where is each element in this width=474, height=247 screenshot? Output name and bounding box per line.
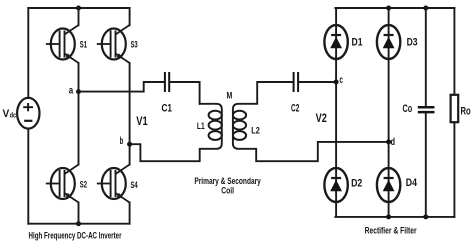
svg-text:dc: dc xyxy=(10,110,17,119)
wire: Co column lower xyxy=(425,113,427,216)
svg-text:D2: D2 xyxy=(351,177,362,189)
wire: C2 to node c xyxy=(299,81,337,83)
svg-text:C1: C1 xyxy=(162,102,173,114)
svg-text:Coil: Coil xyxy=(221,186,234,196)
junction: bottom bus / Co column xyxy=(423,214,428,219)
svg-text:d: d xyxy=(391,137,395,148)
svg-text:D3: D3 xyxy=(407,36,418,48)
node c junction xyxy=(334,80,339,85)
transistor S1 xyxy=(46,25,79,63)
svg-text:S1: S1 xyxy=(80,39,87,49)
diode D2 xyxy=(324,168,347,202)
diode D4 xyxy=(377,168,400,202)
source Vdc xyxy=(17,98,39,129)
wire: bottom DC bus of inverter xyxy=(28,223,129,225)
wire: Ro column upper xyxy=(453,8,455,95)
junction: top bus / Co column xyxy=(423,6,428,11)
svg-text:S2: S2 xyxy=(80,179,87,189)
wire: right leg column segments (S3/S4 leg) xyxy=(129,8,131,224)
wire: D1/D2 column xyxy=(335,8,337,217)
svg-text:c: c xyxy=(339,75,343,86)
wire: left rail lower (Vdc - to bottom bus) xyxy=(27,129,29,224)
junction: top bus / D3 column xyxy=(386,6,391,11)
wire: left rail upper (Vdc + to top bus) xyxy=(27,8,29,98)
wire: bottom bus of rectifier xyxy=(335,216,454,218)
svg-text:L1: L1 xyxy=(197,121,205,132)
wire: top DC bus of rectifier xyxy=(335,7,454,9)
wire: C1 to primary coil top xyxy=(170,82,200,104)
svg-text:High Frequency DC-AC Inverter: High Frequency DC-AC Inverter xyxy=(29,230,122,240)
capacitor C1 xyxy=(165,72,169,92)
svg-text:b: b xyxy=(120,136,124,147)
svg-text:C2: C2 xyxy=(291,103,299,115)
wire: Co column upper xyxy=(425,8,427,106)
inductor L2 (secondary winding) xyxy=(233,82,389,161)
node b junction xyxy=(127,142,132,147)
transistor S3 xyxy=(97,25,130,63)
svg-text:V1: V1 xyxy=(136,114,148,128)
junction: bottom bus / left leg xyxy=(76,221,81,226)
svg-text:Rectifier & Filter: Rectifier & Filter xyxy=(365,226,417,236)
capacitor C2 xyxy=(294,72,299,92)
svg-text:Ro: Ro xyxy=(461,105,471,117)
diode D3 xyxy=(377,25,400,59)
wire: node a to C1 (step up) xyxy=(79,82,165,92)
diode D1 xyxy=(324,25,347,59)
junction: top bus / left leg xyxy=(76,6,81,11)
svg-text:Co: Co xyxy=(403,103,413,115)
transistor S2 xyxy=(46,165,79,203)
svg-text:S4: S4 xyxy=(131,180,138,190)
svg-text:S3: S3 xyxy=(131,39,138,49)
node d junction xyxy=(386,139,391,144)
capacitor Co xyxy=(418,107,435,112)
junction: bottom bus / D4 column xyxy=(386,214,391,219)
node a junction xyxy=(76,89,81,94)
svg-text:D4: D4 xyxy=(406,177,418,189)
svg-text:D1: D1 xyxy=(352,36,363,48)
wire: Ro column lower xyxy=(453,122,455,217)
transistor S4 xyxy=(97,165,130,203)
wire: D3/D4 column xyxy=(388,8,390,217)
inductor L1 (primary winding) xyxy=(130,104,222,161)
svg-text:M: M xyxy=(227,90,233,101)
svg-text:a: a xyxy=(69,86,74,97)
wire: top DC bus of inverter xyxy=(28,7,129,9)
svg-text:L2: L2 xyxy=(251,126,260,137)
svg-text:Primary & Secondary: Primary & Secondary xyxy=(194,176,261,186)
resistor Ro xyxy=(451,95,459,122)
wire: left leg column segments (S1/S2 leg) xyxy=(78,8,80,224)
svg-text:V2: V2 xyxy=(316,111,328,125)
